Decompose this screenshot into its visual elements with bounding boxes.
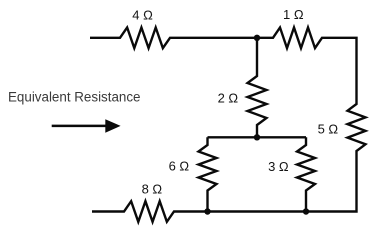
svg-text:2 Ω: 2 Ω — [218, 90, 239, 105]
svg-text:6 Ω: 6 Ω — [169, 159, 190, 174]
svg-text:5 Ω: 5 Ω — [318, 122, 339, 137]
svg-text:Equivalent Resistance: Equivalent Resistance — [8, 89, 141, 104]
svg-text:1 Ω: 1 Ω — [283, 7, 304, 22]
svg-text:8 Ω: 8 Ω — [142, 181, 163, 196]
svg-text:4 Ω: 4 Ω — [132, 8, 153, 23]
svg-text:3 Ω: 3 Ω — [268, 159, 289, 174]
